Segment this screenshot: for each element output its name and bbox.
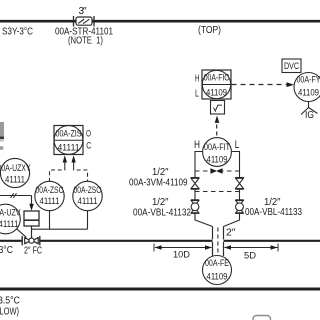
signal arrow up into sqrt box <box>215 116 220 123</box>
signal arrow into FY <box>287 82 294 87</box>
ZIS square <box>54 126 83 155</box>
wire dashed FIT to sqrt <box>216 125 218 137</box>
svg-text:DVC: DVC <box>284 61 299 71</box>
svg-text:10D: 10D <box>173 249 190 260</box>
svg-text:00A-ZIS: 00A-ZIS <box>56 129 82 139</box>
DVC box <box>282 59 301 73</box>
valve ball 2in FC flange ticks <box>21 236 23 245</box>
dimension 5D <box>225 244 279 252</box>
svg-text:2″: 2″ <box>24 246 31 257</box>
svg-text:00A-3VM-41109: 00A-3VM-41109 <box>129 177 188 188</box>
op FIC square (shared display) <box>202 70 231 99</box>
wire main process pipe <box>0 240 22 242</box>
actuator piston UZV <box>24 211 39 226</box>
strainer S flange ticks <box>73 16 75 27</box>
instrument circle FIC <box>202 70 230 98</box>
wire FIT L stub <box>231 152 239 178</box>
svg-text:L: L <box>235 139 240 151</box>
pipe 2in vertical walls <box>213 227 224 257</box>
square root extractor box <box>211 101 225 115</box>
instrument circle ZIS <box>54 126 83 155</box>
wire top header pipe <box>0 20 76 23</box>
valve gate left (vertical) <box>191 178 200 190</box>
svg-text:00A-FE: 00A-FE <box>205 258 229 268</box>
svg-text:41109: 41109 <box>207 271 228 281</box>
svg-text:S3Y-3°C: S3Y-3°C <box>2 26 33 37</box>
wire left gate to ball <box>194 189 196 200</box>
svg-text:C: C <box>86 140 91 150</box>
svg-text:1/2″: 1/2″ <box>152 197 169 208</box>
wire dashed ZSC connector <box>50 166 65 181</box>
svg-text:L: L <box>195 88 199 99</box>
signal arrow into actuator <box>29 204 34 211</box>
svg-text:(TOP): (TOP) <box>198 25 221 36</box>
instrument circle UZXY <box>0 158 29 187</box>
valve equalizing (closed, solid) <box>210 168 222 173</box>
wire equalizer dashed top <box>195 170 240 172</box>
wire FIT H stub <box>195 152 203 178</box>
wire left tap to pipe <box>195 213 213 226</box>
valve ball 00A-VBL-41132 <box>191 200 199 214</box>
wire ZSO riser <box>87 211 89 230</box>
svg-text:H: H <box>194 139 200 151</box>
wire pneumatic signal to actuator <box>0 195 32 197</box>
svg-text:00A-UZXY: 00A-UZXY <box>0 163 31 173</box>
wire dashed ZSO connector <box>74 166 88 181</box>
instrument circle ZSC <box>35 181 64 210</box>
wire right gate to ball <box>239 189 241 200</box>
signal arrow ZSO to ZIS <box>71 155 75 162</box>
instrument circle FY <box>294 73 320 102</box>
svg-text:O: O <box>86 129 91 139</box>
svg-text:41111: 41111 <box>5 175 25 185</box>
valve gate right (vertical) <box>235 178 244 190</box>
svg-text:(LOW): (LOW) <box>0 307 19 318</box>
svg-text:00A-UZV: 00A-UZV <box>0 207 21 217</box>
IG supply crow foot <box>301 102 318 115</box>
strainer 00A-STR-41101 <box>76 17 92 25</box>
wire UZV to valve <box>17 229 27 238</box>
instrument circle FE (orifice) <box>203 256 232 285</box>
logic box fragment left edge <box>0 122 4 137</box>
wire ZSC riser <box>49 211 51 230</box>
valve stem <box>31 226 33 240</box>
pipe centerline dashed <box>217 228 219 256</box>
instrument circle ZSO <box>73 181 102 210</box>
svg-text:41109: 41109 <box>207 155 228 165</box>
wire switches to valve stem <box>32 228 88 230</box>
dimension 10D <box>154 244 212 252</box>
svg-text:H: H <box>195 74 200 85</box>
svg-text:41111: 41111 <box>78 196 98 206</box>
svg-text:3.5°C: 3.5°C <box>0 296 20 307</box>
svg-text:00A-VBL-41132: 00A-VBL-41132 <box>133 208 191 219</box>
svg-text:41111: 41111 <box>40 196 60 206</box>
svg-text:00A-FY: 00A-FY <box>297 75 320 85</box>
instrument circle UZV <box>0 204 20 234</box>
svg-text:2″: 2″ <box>226 228 236 239</box>
wire right tap to pipe <box>224 213 240 226</box>
wire equalizer dashed bottom <box>195 191 240 193</box>
wire dashed FIC to FY <box>232 84 288 86</box>
svg-text:5D: 5D <box>244 250 256 261</box>
svg-text:3″: 3″ <box>79 6 87 17</box>
box rounded bottom (cut) <box>253 316 271 320</box>
valve ball 00A-VBL-41133 <box>235 200 243 214</box>
svg-text:1/2″: 1/2″ <box>152 167 169 178</box>
svg-text:41109: 41109 <box>298 88 319 98</box>
svg-text:00A-ZSC: 00A-ZSC <box>36 185 64 195</box>
valve ball UZV body <box>25 238 39 244</box>
FIC divider <box>202 84 231 86</box>
svg-text:00A-ZSO: 00A-ZSO <box>74 185 102 195</box>
svg-text:41111: 41111 <box>0 219 19 229</box>
signal arrow ZSC to ZIS <box>63 155 67 162</box>
ZIS divider <box>54 139 83 141</box>
svg-text:FC: FC <box>33 246 43 257</box>
svg-text:00A-FIT: 00A-FIT <box>204 142 230 152</box>
svg-text:IG: IG <box>305 110 314 121</box>
wire bottom header pipe <box>0 288 320 291</box>
svg-text:00A-FIC: 00A-FIC <box>204 73 230 83</box>
svg-text:3°C: 3°C <box>0 245 13 256</box>
svg-text:(NOTE 1): (NOTE 1) <box>68 35 103 46</box>
svg-text:41111: 41111 <box>58 143 80 153</box>
instrument circle FIT <box>203 138 232 167</box>
svg-text:00A-VBL-41133: 00A-VBL-41133 <box>245 207 302 218</box>
svg-text:41109: 41109 <box>206 87 227 97</box>
